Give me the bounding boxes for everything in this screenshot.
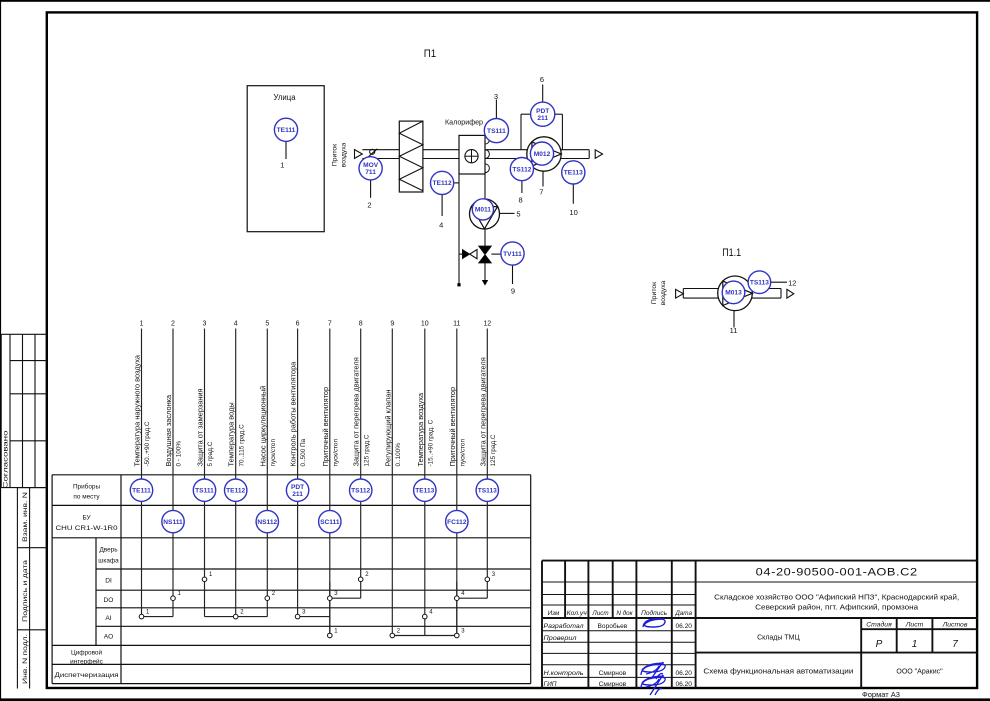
terminal DO1 (171, 596, 176, 601)
svg-text:Склады ТМЦ: Склады ТМЦ (757, 635, 800, 642)
svg-text:Цифровой: Цифровой (71, 649, 103, 657)
svg-text:ООО "Аракис": ООО "Аракис" (896, 669, 943, 676)
wire column 2 (172, 329, 174, 596)
svg-text:Регулирующий клапан: Регулирующий клапан (383, 390, 392, 467)
svg-text:Калорифер: Калорифер (445, 118, 483, 127)
wire PDT211 to node 6 (542, 85, 544, 102)
svg-text:П1.1: П1.1 (722, 247, 741, 259)
wire M013 tail (733, 311, 735, 328)
svg-text:шкафа: шкафа (98, 558, 119, 565)
table instrument TS112 (350, 479, 372, 501)
damper with MOV drive (366, 149, 377, 159)
box Ulitsa (street) (247, 86, 324, 232)
svg-text:Складское хозяйство ООО "Афипс: Складское хозяйство ООО "Афипский НПЗ", … (714, 594, 959, 602)
svg-text:пуск/стоп: пуск/стоп (270, 439, 277, 467)
svg-text:04-20-90500-001-АОВ.С2: 04-20-90500-001-АОВ.С2 (756, 567, 918, 579)
svg-text:211: 211 (292, 491, 303, 498)
page left edge line (0, 0, 1, 701)
heater box (459, 135, 485, 174)
title row Nkontrol (544, 670, 693, 677)
page top edge bar (0, 0, 990, 2)
capillary coil of TS111 (485, 135, 489, 174)
duct outlet end cap (588, 150, 590, 159)
terminal AO2 (390, 633, 395, 638)
svg-text:NS111: NS111 (163, 519, 183, 526)
signal column 3 caption (196, 321, 215, 467)
duct inlet arrow (355, 150, 363, 159)
wire jog AO2-AO3 (395, 635, 455, 637)
svg-text:06.20: 06.20 (675, 623, 692, 630)
svg-text:Дата: Дата (674, 610, 692, 617)
wire TE113 tail (572, 185, 574, 204)
svg-text:интерфейс: интерфейс (70, 658, 103, 666)
svg-text:Воздушная заслонка: Воздушная заслонка (164, 394, 173, 467)
instrument TE111 (street) (274, 118, 297, 141)
svg-text:711: 711 (365, 169, 376, 176)
svg-text:пуск/стоп: пуск/стоп (459, 439, 466, 467)
svg-text:Взам. инв. N: Взам. инв. N (22, 492, 29, 542)
svg-text:CHU CR1-W-1R0: CHU CR1-W-1R0 (56, 525, 119, 532)
svg-text:9: 9 (511, 287, 515, 296)
svg-text:NS112: NS112 (257, 519, 277, 526)
svg-text:M011: M011 (475, 207, 491, 214)
table controller NS111 (162, 510, 184, 532)
wire column 4 (235, 329, 237, 615)
signal column 12 caption (478, 321, 497, 467)
wire TS112 tail (521, 181, 523, 193)
fan M013 (718, 276, 753, 311)
terminal DI1 (202, 577, 207, 582)
table controller NS112 (256, 510, 278, 532)
svg-text:TS113: TS113 (750, 280, 769, 287)
wire jog DI1-AI2 (205, 582, 234, 617)
instrument M013 motor (722, 281, 745, 304)
terminal AI1 (139, 614, 144, 619)
svg-text:Согласовано: Согласовано (2, 430, 9, 489)
svg-text:Смирнов: Смирнов (599, 681, 627, 688)
svg-text:БУ: БУ (82, 515, 91, 522)
svg-text:Приточный вентилятор: Приточный вентилятор (448, 387, 457, 467)
svg-text:10: 10 (569, 208, 577, 217)
signal column 9 caption (383, 321, 402, 467)
svg-text:06.20: 06.20 (675, 681, 692, 688)
signal table grid (52, 475, 531, 684)
duct segment 1 (362, 149, 399, 151)
wire column 1 (141, 329, 143, 615)
wire MOV711 tail (370, 180, 372, 198)
instrument TV111 (501, 242, 524, 265)
svg-text:-15..+90 град. С: -15..+90 град. С (427, 419, 434, 466)
svg-text:Листов: Листов (942, 622, 968, 629)
signal column 2 caption (164, 321, 183, 467)
instrument M012 motor (530, 142, 553, 165)
table instrument TE112 (225, 479, 247, 501)
title row Razrabotal (544, 622, 693, 630)
duct segment 3 (485, 149, 589, 151)
svg-text:Контроль работы вентилятора: Контроль работы вентилятора (289, 361, 298, 467)
svg-text:6: 6 (540, 75, 544, 84)
svg-text:2: 2 (367, 201, 371, 210)
wire TV111 tail (512, 265, 514, 284)
table controller FC112 (446, 510, 468, 532)
table instrument TE113 (414, 479, 436, 501)
terminal AO3 (455, 633, 460, 638)
svg-text:1: 1 (280, 161, 284, 170)
svg-text:TE111: TE111 (277, 127, 296, 134)
svg-text:7: 7 (539, 187, 543, 196)
wire column 5 (266, 329, 268, 596)
svg-text:Подпись и дата: Подпись и дата (22, 559, 29, 622)
svg-text:TS111: TS111 (195, 488, 214, 495)
svg-text:Н.контроль: Н.контроль (544, 670, 585, 677)
terminal AI2 (233, 614, 238, 619)
fan M012 (527, 137, 561, 171)
table controller SC111 (319, 510, 341, 532)
pipe heater return (right) (484, 174, 486, 246)
terminal DO4 (455, 596, 460, 601)
svg-text:0..500 Па: 0..500 Па (300, 438, 307, 466)
svg-text:Подпись: Подпись (641, 609, 667, 617)
svg-text:FC112: FC112 (447, 519, 467, 526)
terminal DI2 (358, 577, 363, 582)
svg-text:5 град.С: 5 град.С (207, 441, 214, 466)
svg-text:ГИП: ГИП (544, 681, 557, 688)
svg-text:DO: DO (104, 597, 114, 604)
shutoff valve (459, 250, 477, 259)
wire column 8 (360, 329, 362, 578)
signal column 1 caption (133, 321, 152, 467)
svg-text:8: 8 (359, 321, 363, 328)
wire TE111 tail (285, 142, 287, 160)
left margin table Soglasovano (1, 334, 47, 488)
svg-text:Стадия: Стадия (866, 621, 892, 629)
instrument M011 motor (472, 199, 493, 220)
signal column 6 caption (289, 321, 308, 467)
svg-text:Инв. N подл.: Инв. N подл. (22, 634, 29, 684)
svg-text:Смирнов: Смирнов (599, 670, 627, 677)
wire column 6 (297, 329, 299, 615)
left margin cell Vzam inv N (17, 488, 46, 689)
svg-text:0 - 100%: 0 - 100% (176, 441, 183, 467)
svg-text:Изм: Изм (548, 610, 560, 617)
svg-text:Приборы: Приборы (73, 483, 100, 491)
instrument TS113 duct (748, 271, 771, 294)
wire TS113 to node 12 (771, 281, 787, 283)
control valve TV111 (3-way) (479, 246, 501, 263)
svg-text:Дверь: Дверь (99, 547, 118, 554)
svg-text:Улица: Улица (274, 93, 297, 102)
svg-text:N док: N док (616, 609, 633, 617)
svg-text:Разработал: Разработал (544, 622, 584, 630)
svg-text:2: 2 (171, 321, 175, 328)
wire column 7 (329, 329, 331, 634)
svg-text:TE113: TE113 (564, 170, 583, 177)
wire jog AI2-DO2 (238, 601, 267, 617)
svg-text:PDT: PDT (536, 108, 549, 115)
svg-text:Формат А3: Формат А3 (862, 690, 900, 699)
svg-text:MOV: MOV (363, 162, 379, 169)
wire jog DI2-DO3 (332, 582, 361, 599)
svg-text:-50..+90 град.С: -50..+90 град.С (144, 421, 151, 466)
duct segment 2 (423, 149, 459, 151)
svg-text:Защита от перегрева двигателя: Защита от перегрева двигателя (352, 357, 361, 466)
wire TE112 tail (441, 195, 443, 216)
wire c11 through DO4 to AO3 (456, 582, 458, 634)
table instrument TS113 (476, 479, 498, 501)
node 5 pointer (500, 212, 515, 214)
svg-text:по месту: по месту (73, 494, 100, 501)
svg-text:1: 1 (140, 321, 144, 328)
svg-text:TS111: TS111 (487, 128, 506, 135)
svg-text:3: 3 (203, 321, 207, 328)
instrument TE113 (562, 161, 585, 184)
svg-text:11: 11 (730, 326, 738, 335)
svg-text:TS112: TS112 (512, 166, 531, 173)
instrument TS112 (510, 158, 533, 181)
svg-text:7: 7 (952, 639, 958, 650)
wire column 3 (204, 329, 206, 578)
pump M011 (470, 199, 500, 229)
terminal AO1 (328, 633, 333, 638)
svg-text:211: 211 (537, 115, 548, 122)
svg-text:06.20: 06.20 (675, 670, 692, 677)
signal column 8 caption (352, 321, 371, 467)
svg-text:Температура воды: Температура воды (227, 402, 236, 466)
svg-text:Диспетчеризация: Диспетчеризация (55, 672, 119, 679)
svg-text:AO: AO (104, 634, 114, 641)
wire column 11 (456, 329, 458, 634)
wire AI4 down to AO bus (424, 619, 426, 636)
svg-text:M012: M012 (534, 151, 551, 158)
signature Smirnov 1 (641, 662, 665, 679)
svg-text:Воробьев: Воробьев (598, 622, 628, 630)
left margin cell Inv N podl (22, 634, 29, 684)
svg-text:TE112: TE112 (226, 488, 245, 495)
pipe heater supply (left) (458, 174, 460, 285)
signal column 4 caption (227, 321, 246, 467)
svg-text:1: 1 (912, 639, 918, 650)
heat exchanger (recuperator) (399, 121, 423, 192)
svg-text:4: 4 (234, 321, 238, 328)
svg-text:TV111: TV111 (503, 251, 522, 258)
terminal DO3 (328, 596, 333, 601)
signal column 5 caption (258, 321, 277, 467)
svg-text:6: 6 (296, 321, 300, 328)
svg-text:0..100%: 0..100% (395, 443, 402, 467)
svg-text:PDT: PDT (291, 484, 304, 491)
svg-text:П1: П1 (424, 48, 437, 60)
terminal AI4 (423, 614, 428, 619)
svg-text:Лист: Лист (905, 622, 924, 629)
svg-text:Защита от замерзания: Защита от замерзания (196, 388, 205, 466)
svg-text:воздуха: воздуха (341, 142, 348, 167)
wire jog DO1-AI1 (144, 601, 173, 617)
left margin cell Podpis i data (17, 559, 46, 630)
wire jog DI3-DO4 (459, 582, 487, 599)
duct outlet arrow (595, 150, 602, 159)
wire M012 tail (542, 171, 544, 186)
svg-text:AI: AI (105, 615, 111, 622)
svg-text:125 град.С: 125 град.С (363, 434, 370, 466)
wire TS111 to node 3 (495, 100, 497, 119)
instrument MOV711 (359, 157, 382, 180)
duct P1.1 (683, 289, 781, 299)
wire c7 through DO3 to AO1 (329, 582, 331, 634)
title row GIP (544, 681, 693, 688)
svg-text:SC111: SC111 (320, 519, 340, 526)
svg-text:Приток: Приток (332, 144, 339, 166)
svg-text:Приточный вентилятор: Приточный вентилятор (321, 387, 330, 467)
svg-text:DI: DI (105, 578, 112, 585)
svg-text:воздуха: воздуха (660, 280, 667, 305)
wire column 12 (486, 329, 488, 578)
pressure taps of PDT211 (521, 114, 562, 150)
svg-text:Температура воздуха: Температура воздуха (416, 392, 425, 467)
pipe return to network with arrow (482, 263, 488, 286)
terminal AI3 (295, 614, 300, 619)
svg-text:12: 12 (788, 278, 796, 287)
svg-text:Р: Р (876, 639, 883, 650)
instrument TE112 (water temperature) (431, 171, 454, 194)
svg-text:7: 7 (328, 321, 332, 328)
svg-text:TE112: TE112 (433, 180, 452, 187)
svg-text:TS113: TS113 (478, 488, 497, 495)
svg-text:Схема функциональная автоматиз: Схема функциональная автоматизации (703, 669, 853, 676)
duct inlet arrow P1.1 (676, 289, 684, 298)
title header row (548, 609, 693, 617)
table instrument TS111 (193, 479, 215, 501)
table instrument PDT211 (286, 479, 308, 501)
svg-text:TE111: TE111 (132, 488, 151, 495)
svg-text:M013: M013 (725, 290, 742, 297)
signature Smirnov 2 (641, 675, 665, 695)
signal column 11 caption (448, 321, 467, 467)
svg-text:пуск/стоп: пуск/стоп (332, 439, 339, 467)
svg-text:5: 5 (265, 321, 269, 328)
svg-text:Температура наружного воздуха: Температура наружного воздуха (133, 354, 142, 466)
wire column 9 (391, 329, 393, 634)
svg-text:11: 11 (453, 321, 460, 328)
wire jog AI3-c7 (300, 616, 330, 618)
wire column 10 (424, 329, 426, 615)
svg-text:Приток: Приток (651, 282, 658, 304)
svg-text:Северский район, пгт. Афипский: Северский район, пгт. Афипский, промзона (755, 604, 918, 612)
svg-text:Защита от перегрева двигателя: Защита от перегрева двигателя (478, 357, 487, 466)
svg-text:4: 4 (439, 220, 443, 229)
svg-text:3: 3 (494, 92, 498, 101)
svg-text:Кол.уч: Кол.уч (567, 610, 588, 617)
svg-text:125 град.С: 125 град.С (490, 434, 497, 466)
svg-text:9: 9 (390, 321, 394, 328)
table instrument TE111 (130, 479, 152, 501)
svg-text:12: 12 (483, 321, 491, 328)
svg-text:Насос циркуляционный: Насос циркуляционный (258, 386, 267, 467)
terminal DO2 (265, 596, 270, 601)
signature Vorobyev (643, 619, 665, 627)
svg-text:10: 10 (421, 321, 429, 328)
page bottom edge bar (0, 698, 990, 701)
duct outlet arrow P1.1 (787, 289, 794, 298)
svg-text:70..115 град.С: 70..115 град.С (238, 424, 245, 467)
signal column 10 caption (416, 321, 435, 467)
svg-text:8: 8 (519, 195, 523, 204)
svg-text:TS112: TS112 (351, 488, 370, 495)
svg-text:TE113: TE113 (415, 488, 434, 495)
svg-text:Лист: Лист (591, 610, 608, 617)
svg-text:5: 5 (516, 210, 520, 219)
table row labels (55, 483, 120, 679)
instrument TS111 (freeze protection) (484, 119, 508, 143)
svg-text:Проверил: Проверил (544, 635, 577, 642)
terminal DI3 (485, 577, 490, 582)
title block grid (542, 561, 978, 689)
instrument PDT211 (531, 102, 555, 126)
signal column 7 caption (321, 321, 340, 467)
